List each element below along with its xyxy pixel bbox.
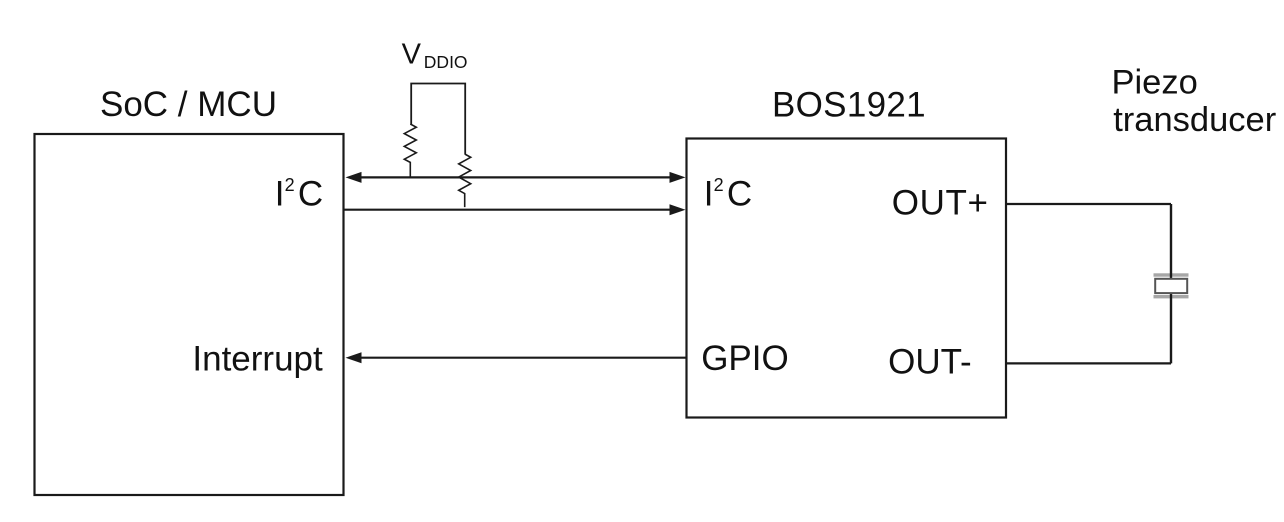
svg-text:C: C <box>298 174 323 213</box>
svg-text:2: 2 <box>714 175 724 195</box>
svg-text:OUT-: OUT- <box>888 343 972 382</box>
svg-text:Interrupt: Interrupt <box>192 339 323 378</box>
svg-text:I: I <box>704 174 714 213</box>
svg-text:2: 2 <box>285 175 295 195</box>
svg-text:DDIO: DDIO <box>424 52 468 72</box>
svg-text:Piezo: Piezo <box>1112 63 1198 101</box>
svg-text:OUT+: OUT+ <box>892 183 989 222</box>
svg-text:I: I <box>275 174 285 213</box>
svg-text:GPIO: GPIO <box>701 339 789 378</box>
svg-text:V: V <box>402 38 422 70</box>
svg-text:BOS1921: BOS1921 <box>772 86 926 125</box>
svg-text:C: C <box>727 174 752 213</box>
svg-text:SoC / MCU: SoC / MCU <box>100 85 277 124</box>
svg-text:transducer: transducer <box>1113 101 1276 139</box>
